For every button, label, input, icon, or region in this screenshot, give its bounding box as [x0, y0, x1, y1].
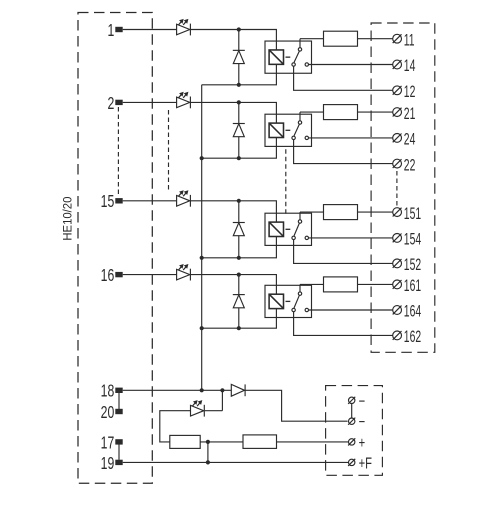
- svg-text:HE10/20: HE10/20: [61, 197, 74, 241]
- wire NC contact to terminal 152: [294, 240, 393, 264]
- relay K3 switch: [292, 220, 309, 240]
- pin 2 terminal square: [115, 100, 122, 105]
- wire LED H2 to relay coil: [190, 102, 276, 123]
- wire resistor R1 to fuse F5: [200, 441, 243, 443]
- junction diode V1 cathode on rail: [237, 83, 241, 87]
- wire NC contact to terminal 22: [294, 140, 393, 164]
- wire fuse F1 to terminal 11: [358, 38, 393, 40]
- svg-text:−: −: [359, 412, 366, 431]
- pin 17 terminal square: [115, 439, 122, 444]
- continuation dashed line relay column: [285, 149, 287, 216]
- LED H1: [177, 19, 191, 36]
- junction diode V1 anode on input wire: [237, 27, 241, 31]
- freewheeling diode V2 wire: [238, 102, 240, 158]
- relay K1 switch common wire: [299, 39, 301, 48]
- wire pin to LED channel 3: [123, 200, 177, 202]
- wire NO contact to terminal 164: [309, 309, 393, 311]
- relay K4 switch common wire: [299, 284, 301, 292]
- relay K4 outline: [265, 285, 312, 317]
- svg-text:154: 154: [404, 230, 422, 248]
- svg-text:152: 152: [404, 256, 421, 274]
- svg-text:164: 164: [404, 302, 422, 320]
- svg-text:+F: +F: [359, 453, 372, 472]
- freewheeling diode V1: [233, 50, 245, 63]
- relay K3 outline: [265, 213, 312, 245]
- connector HE10/20 dashed outline: [78, 13, 152, 484]
- wire pin 18 to supply minus: [123, 389, 232, 391]
- relay K2 switch: [292, 121, 309, 140]
- svg-text:15: 15: [101, 192, 115, 212]
- wire common to fuse F3: [300, 211, 324, 213]
- fuse F2: [324, 105, 358, 120]
- svg-text:161: 161: [404, 277, 421, 295]
- svg-text:162: 162: [404, 328, 421, 346]
- wire pin 19 to terminal +F: [123, 461, 349, 463]
- pin 1 terminal square: [115, 27, 122, 32]
- junction diode V2 anode on input wire: [237, 100, 241, 104]
- svg-text:14: 14: [404, 57, 416, 75]
- svg-text:+: +: [359, 433, 366, 452]
- terminal 24: [393, 133, 402, 142]
- freewheeling diode V4: [233, 295, 245, 308]
- relay K3 coil: [269, 222, 283, 236]
- supply terminal − (1): [348, 418, 355, 425]
- pin 20 terminal square: [115, 409, 122, 414]
- wire NC contact to terminal 162: [294, 312, 393, 336]
- relay K1 coil: [269, 50, 283, 64]
- pin 15 terminal square: [115, 198, 122, 203]
- junction rail to pin 18 wire: [200, 388, 204, 392]
- wire LED H5 cathode: [205, 410, 223, 412]
- junction node A on plus wire: [206, 440, 210, 444]
- freewheeling diode V1 wire: [238, 30, 240, 85]
- svg-text:20: 20: [101, 403, 115, 423]
- svg-text:11: 11: [404, 31, 415, 49]
- svg-text:12: 12: [404, 83, 416, 101]
- fuse F1: [324, 31, 358, 46]
- supply terminal + (2): [348, 438, 355, 445]
- wire pin to LED channel 1: [123, 29, 177, 31]
- junction diode V4 cathode on rail: [237, 326, 241, 330]
- LED H2: [177, 92, 191, 109]
- wire pin 18 to pin 20 link: [118, 393, 120, 409]
- terminal 164: [393, 306, 402, 315]
- wire fuse F4 to terminal 161: [358, 283, 393, 285]
- relay K4 coil: [269, 294, 283, 308]
- junction diode V3 cathode on rail: [237, 256, 241, 260]
- fuse F3: [324, 205, 358, 220]
- svg-text:151: 151: [404, 204, 421, 222]
- svg-text:24: 24: [404, 130, 416, 148]
- svg-text:22: 22: [404, 156, 416, 174]
- junction diode V3 anode on input wire: [237, 199, 241, 203]
- continuation dashed line LED column: [168, 110, 170, 192]
- junction rail channel 4: [200, 326, 204, 330]
- wire LED H3 to relay coil: [190, 201, 276, 222]
- terminal 14: [393, 60, 402, 69]
- wire LED H5 anode to resistor R1: [160, 411, 191, 442]
- wire fuse F3 to terminal 151: [358, 211, 393, 213]
- svg-text:18: 18: [101, 382, 115, 402]
- svg-text:1: 1: [107, 21, 114, 41]
- junction rail channel 3: [200, 256, 204, 260]
- LED H5: [191, 400, 205, 417]
- relay K3 switch common wire: [299, 212, 301, 220]
- wire coil K1 bottom to rail: [202, 64, 277, 84]
- relay K1 outline: [265, 41, 312, 73]
- freewheeling diode V2: [233, 124, 245, 137]
- pin 19 terminal square: [115, 460, 122, 465]
- freewheeling diode V3 wire: [238, 201, 240, 258]
- relay K4 switch: [292, 292, 309, 312]
- wire coil K2 bottom to rail: [202, 138, 277, 159]
- relay K3 coil tick: [286, 228, 291, 230]
- supply terminal − (0): [348, 397, 355, 404]
- wire NO contact to terminal 154: [309, 237, 393, 239]
- wire NO contact to terminal 14: [309, 64, 393, 66]
- LED H3: [177, 190, 191, 207]
- terminal 21: [393, 108, 402, 117]
- relay K2 coil: [269, 123, 283, 137]
- terminal 154: [393, 233, 402, 242]
- svg-text:2: 2: [107, 94, 114, 114]
- svg-text:17: 17: [101, 433, 115, 453]
- pin 18 terminal square: [115, 388, 122, 393]
- freewheeling diode V3: [233, 223, 245, 236]
- pin 16 terminal square: [115, 272, 122, 277]
- continuation dashed line pins 2..15: [117, 107, 119, 196]
- wire coil K4 bottom to rail: [202, 309, 277, 329]
- LED H4: [177, 264, 191, 281]
- supply terminal +F (3): [348, 459, 355, 466]
- wire coil K3 bottom to rail: [202, 237, 277, 258]
- wire NC contact to terminal 12: [294, 66, 393, 90]
- wire pin 17 to pin 19 link: [118, 445, 120, 460]
- relay K2 coil tick: [286, 129, 291, 131]
- relay K1 coil tick: [286, 56, 291, 58]
- junction diode V4 anode on input wire: [237, 273, 241, 277]
- wire fuse F2 to terminal 21: [358, 111, 393, 113]
- svg-text:19: 19: [101, 454, 115, 474]
- fuse F4: [324, 277, 358, 292]
- relay K1 switch: [292, 48, 309, 67]
- wire fuse F5 to plus terminal: [277, 441, 349, 443]
- wire pin to LED channel 4: [123, 274, 177, 276]
- polarity diode V5: [231, 384, 245, 396]
- terminal 152: [393, 259, 402, 268]
- freewheeling diode V4 wire: [238, 275, 240, 329]
- terminal 22: [393, 159, 402, 168]
- svg-text:−: −: [359, 391, 366, 410]
- terminal 12: [393, 86, 402, 95]
- junction LED H5 cathode riser: [220, 388, 224, 392]
- wire common to fuse F4: [300, 283, 324, 285]
- terminal 162: [393, 331, 402, 340]
- output terminals dashed outline: [371, 23, 435, 352]
- wire LED H4 to relay coil: [190, 275, 276, 295]
- wire common to fuse F1: [300, 38, 324, 40]
- resistor R1: [170, 435, 200, 448]
- wire minus terminals link: [351, 404, 353, 419]
- LED H5 cathode riser wire: [221, 390, 223, 410]
- relay K4 coil tick: [286, 300, 291, 302]
- supply dashed outline: [326, 386, 383, 476]
- svg-text:16: 16: [101, 266, 115, 286]
- junction rail channel 2: [200, 156, 204, 160]
- net 0V rail vertical wire: [201, 85, 203, 391]
- terminal 11: [393, 34, 402, 43]
- wire node A to pin 19 wire: [207, 442, 209, 463]
- wire NO contact to terminal 24: [309, 137, 393, 139]
- relay K2 outline: [265, 114, 312, 146]
- terminal 161: [393, 280, 402, 289]
- wire LED H1 to relay coil: [190, 30, 276, 50]
- junction diode V2 cathode on rail: [237, 156, 241, 160]
- junction node A on pin 19 wire: [206, 460, 210, 464]
- svg-text:21: 21: [404, 104, 416, 122]
- wire common to fuse F2: [300, 111, 324, 113]
- relay K2 switch common wire: [299, 112, 301, 121]
- wire diode V5 to minus terminal: [245, 390, 348, 421]
- terminal 151: [393, 208, 402, 217]
- wire pin to LED channel 2: [123, 101, 177, 103]
- continuation dashed line terminal column: [396, 171, 398, 207]
- fuse F5: [243, 435, 277, 449]
